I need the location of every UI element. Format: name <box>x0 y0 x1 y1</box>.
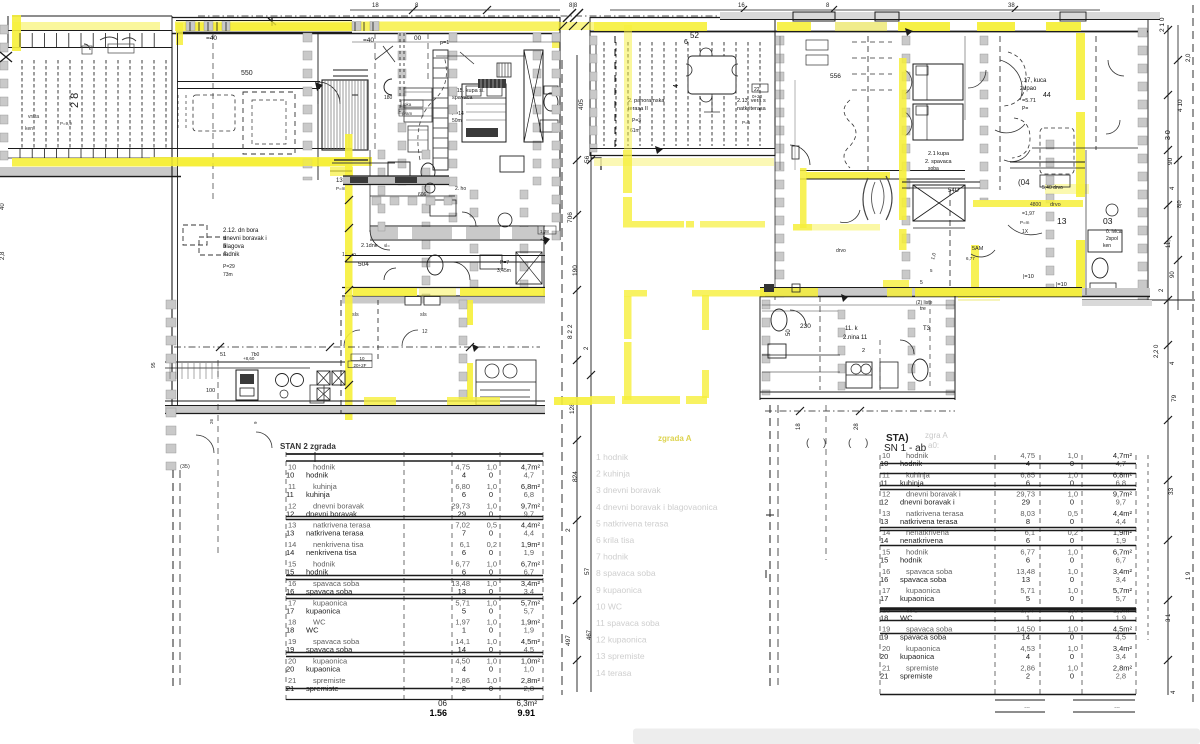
left wing dashed lines down <box>173 360 218 690</box>
svg-text:9 kupaonica: 9 kupaonica <box>596 585 642 595</box>
svg-text:P=m: P=m <box>1020 220 1030 225</box>
dashed wall lower wing <box>341 300 378 413</box>
svg-text:2 1 0: 2 1 0 <box>1159 17 1166 32</box>
sofa dashed living mid <box>183 225 225 255</box>
beam line room1 <box>177 70 320 89</box>
wall highlight yellow v2 <box>467 300 473 400</box>
terrace small labels <box>25 114 72 132</box>
bath cluster extra walls <box>370 150 455 232</box>
svg-text:(: ( <box>848 438 852 449</box>
svg-text:14: 14 <box>880 536 888 545</box>
svg-text:4,4: 4,4 <box>524 529 534 538</box>
svg-text:sl=: sl= <box>384 243 390 248</box>
svg-text:18: 18 <box>796 423 802 430</box>
bath fixtures extra <box>384 156 542 284</box>
masonry right plan left wall <box>775 31 784 300</box>
svg-text:hodnik: hodnik <box>306 471 328 480</box>
masonry right wall rightplan <box>1138 19 1148 300</box>
svg-text:20: 20 <box>286 665 294 674</box>
svg-text:13: 13 <box>1022 575 1030 584</box>
svg-text:824: 824 <box>572 471 579 482</box>
svg-text:3 dnevni boravak: 3 dnevni boravak <box>596 485 661 495</box>
svg-text:1,0: 1,0 <box>930 252 938 260</box>
svg-text:4800: 4800 <box>1030 202 1041 208</box>
terrace hatch stairs <box>22 60 166 148</box>
svg-text:50: 50 <box>786 329 792 336</box>
svg-text:51: 51 <box>220 352 226 358</box>
left edge arrow mark <box>0 52 12 62</box>
wall highlight yellow top right plan <box>777 22 1081 31</box>
svg-text:0: 0 <box>489 548 493 557</box>
dimension under right wing <box>765 407 955 449</box>
svg-text:...: ... <box>1024 703 1030 710</box>
svg-text:29: 29 <box>1022 498 1030 507</box>
svg-text:17: 17 <box>880 594 888 603</box>
svg-text:0: 0 <box>1070 671 1074 680</box>
svg-text:radnik: radnik <box>223 252 240 258</box>
bath right fixtures <box>540 86 558 132</box>
bath cluster corridor lines <box>345 42 560 262</box>
wall highlight yellow band drvo <box>973 200 1083 208</box>
wall highlight yellow bottom right plan <box>760 288 1082 297</box>
svg-text:90: 90 <box>1167 157 1174 165</box>
bottom wall left apartment <box>342 288 545 306</box>
door swing arrows <box>315 28 913 352</box>
svg-text:44: 44 <box>1043 92 1051 99</box>
right plan extra wall lines <box>902 36 1138 295</box>
svg-text:8|8: 8|8 <box>569 3 578 9</box>
door arcs mid <box>370 230 470 280</box>
svg-text:4: 4 <box>1026 652 1030 661</box>
svg-text:606: 606 <box>418 192 427 198</box>
top wall pillars <box>793 12 1086 21</box>
table right room schedule <box>880 431 1148 712</box>
wall highlight yellow v kitchen <box>971 245 979 295</box>
svg-text:1 9: 1 9 <box>1186 571 1192 580</box>
lower wing extra lines right <box>762 300 955 390</box>
wardrobe dashes entry <box>830 42 892 168</box>
svg-text:2: 2 <box>1026 671 1030 680</box>
svg-text:1,28: 1,28 <box>540 229 549 234</box>
right plan lower-left fixtures <box>764 284 806 358</box>
svg-text:blagova: blagova <box>223 244 245 250</box>
svg-text:=5.71: =5.71 <box>1022 98 1036 104</box>
svg-text:2. spavaca: 2. spavaca <box>925 159 953 165</box>
bath fixtures mid <box>427 200 512 275</box>
svg-text:spremiste: spremiste <box>900 671 933 680</box>
svg-text:(04: (04 <box>1018 178 1030 187</box>
closet X box <box>913 185 965 221</box>
svg-text:1,9: 1,9 <box>524 548 534 557</box>
bed dark pillows <box>466 63 511 137</box>
kitchen lower extra <box>170 363 324 403</box>
svg-text:5AM: 5AM <box>972 246 984 252</box>
svg-text:dnevni boravak i: dnevni boravak i <box>900 498 955 507</box>
svg-text:0: 0 <box>489 471 493 480</box>
svg-text:0: 0 <box>489 529 493 538</box>
svg-text:pram: pram <box>402 111 413 116</box>
svg-text:soba: soba <box>928 166 939 172</box>
svg-text:7b0: 7b0 <box>251 352 260 358</box>
bath right fixtures2 <box>1088 204 1122 293</box>
svg-text:11: 11 <box>286 490 294 499</box>
svg-text:6: 6 <box>684 39 688 46</box>
svg-text:ken: ken <box>25 126 33 132</box>
svg-text:40: 40 <box>0 203 6 210</box>
svg-text:3,45m: 3,45m <box>497 268 511 274</box>
svg-text:T3: T3 <box>923 326 931 332</box>
label 2.8 rotated <box>69 93 81 108</box>
yellow dash vert below terrace2 <box>615 25 632 221</box>
corridor below labels <box>352 312 428 335</box>
masonry wall x975 <box>980 36 988 200</box>
svg-text:22: 22 <box>754 87 760 93</box>
entry corridor clutter <box>780 36 828 170</box>
svg-text:5: 5 <box>920 280 923 286</box>
yellow marks above bottom wall <box>883 274 1067 306</box>
tall mirror X box <box>524 50 543 142</box>
svg-text:13: 13 <box>880 517 888 526</box>
window ticks top wall <box>176 22 560 48</box>
terrace bottom gray band <box>0 167 181 177</box>
svg-text:03: 03 <box>1103 216 1113 226</box>
kitchen appliances <box>151 354 372 424</box>
door arcs lower wing <box>196 432 272 453</box>
kitchen arcs right <box>995 60 1030 162</box>
wall highlight yellow bottom apt <box>353 288 545 296</box>
right wing dashed lines down <box>770 405 826 690</box>
svg-text:=40: =40 <box>363 37 374 44</box>
small L marks <box>352 95 774 578</box>
svg-text:natkrivena terasa: natkrivena terasa <box>900 517 958 526</box>
svg-text:P=: P= <box>1022 106 1028 112</box>
label =40 pair <box>206 35 449 46</box>
hall shapes mid <box>404 88 432 152</box>
svg-text:73m: 73m <box>223 272 233 278</box>
dark counter band left apt <box>343 176 449 198</box>
ghost table faded center <box>596 434 718 678</box>
svg-text:3 1: 3 1 <box>1166 613 1172 622</box>
bedroom bed 1 <box>318 33 368 180</box>
svg-text:706: 706 <box>567 212 574 223</box>
yellow ghost outline verticals <box>624 295 709 400</box>
terrace2 labels <box>628 31 768 134</box>
svg-text:(35): (35) <box>180 464 190 470</box>
terrace2 table set <box>686 48 738 112</box>
svg-text:P=m: P=m <box>336 186 346 191</box>
sofa curves kitchen right <box>840 210 1042 257</box>
svg-text:natkriterasa: natkriterasa <box>737 106 767 112</box>
dimension chain under left plan <box>174 343 540 358</box>
svg-text:zgra A: zgra A <box>925 431 948 440</box>
door arcs corridor <box>344 330 418 346</box>
dimension left edge <box>0 203 6 260</box>
door arc room1 <box>318 82 340 104</box>
svg-text:2.nina 11: 2.nina 11 <box>843 335 868 341</box>
svg-text:nenkrivena tisa: nenkrivena tisa <box>306 548 357 557</box>
svg-text:2. ho: 2. ho <box>455 186 466 192</box>
svg-text:4: 4 <box>1171 690 1177 694</box>
svg-text:6: 6 <box>1026 556 1030 565</box>
wall highlight yellow corridor <box>806 172 1089 194</box>
svg-text:nenatkrivena: nenatkrivena <box>900 536 944 545</box>
svg-text:0: 0 <box>1070 575 1074 584</box>
svg-text:5: 5 <box>930 268 933 273</box>
svg-text:p=1: p=1 <box>440 40 449 46</box>
corridor lines right plan <box>800 171 965 255</box>
svg-text:kupaonica: kupaonica <box>306 665 341 674</box>
svg-text:7 hodnik: 7 hodnik <box>596 552 629 562</box>
svg-text:|=10: |=10 <box>1023 274 1034 280</box>
svg-text:P=6: P=6 <box>742 120 751 125</box>
svg-text:556: 556 <box>830 73 841 80</box>
labels 13 03 <box>1020 185 1122 249</box>
svg-text:1 hodnik: 1 hodnik <box>596 452 629 462</box>
sofa dashed living top <box>243 92 295 154</box>
svg-text:12: 12 <box>422 329 428 335</box>
svg-text:8 2 2: 8 2 2 <box>567 324 574 339</box>
left upper wardrobe lines <box>404 92 432 140</box>
staircase ladder <box>418 50 448 170</box>
svg-text:spavaca soba: spavaca soba <box>900 575 947 584</box>
svg-text:2 8: 2 8 <box>69 93 81 108</box>
bedroom bed 2 <box>462 84 506 142</box>
svg-text:12: 12 <box>880 498 888 507</box>
svg-text:): ) <box>865 438 868 449</box>
svg-text:10: 10 <box>286 471 294 480</box>
svg-text:56: 56 <box>584 155 591 163</box>
svg-text:vrata: vrata <box>28 114 39 120</box>
label 550 chair <box>375 46 474 64</box>
svg-text:8: 8 <box>826 3 830 9</box>
svg-text:100: 100 <box>206 388 215 394</box>
svg-text:8|0: 8|0 <box>1177 200 1183 208</box>
svg-text:0: 0 <box>1070 652 1074 661</box>
svg-text:5,7: 5,7 <box>1116 594 1126 603</box>
terrace upper ticks <box>20 33 154 47</box>
svg-text:5,7: 5,7 <box>524 606 534 615</box>
svg-text:2,2 0: 2,2 0 <box>1154 344 1160 358</box>
terrace outer walls left <box>8 16 352 48</box>
svg-text:57: 57 <box>584 567 591 575</box>
svg-text:0: 0 <box>1070 536 1074 545</box>
svg-text:2,8: 2,8 <box>0 251 6 260</box>
radiator C and labels <box>384 79 423 116</box>
top wall apartment left <box>172 18 560 34</box>
dimension chain middle vertical <box>562 55 601 695</box>
svg-text:8: 8 <box>1026 517 1030 526</box>
right kitchen dashed furniture <box>1004 52 1085 187</box>
svg-text:06: 06 <box>438 699 447 708</box>
lower wing fixtures <box>846 340 928 388</box>
yellow ghost outline top <box>624 290 765 297</box>
kitchen labels right <box>1020 78 1051 112</box>
svg-text:4: 4 <box>1170 186 1176 190</box>
svg-text:6,7: 6,7 <box>1116 556 1126 565</box>
svg-text:4: 4 <box>1170 361 1176 365</box>
lower wing labels <box>786 306 931 354</box>
wall highlight yellow v1 <box>345 134 353 420</box>
kitchen lower counters <box>165 362 545 414</box>
svg-text:STAN 2 zgrada: STAN 2 zgrada <box>280 442 336 451</box>
bedroom2 beds <box>905 64 963 140</box>
svg-text:20: 20 <box>880 652 888 661</box>
svg-text:4: 4 <box>462 471 466 480</box>
svg-text:3,4: 3,4 <box>1116 652 1126 661</box>
svg-text:28: 28 <box>854 423 860 430</box>
svg-text:4 10: 4 10 <box>1177 99 1184 112</box>
svg-text:79: 79 <box>1171 394 1178 402</box>
svg-text:18: 18 <box>372 3 379 9</box>
svg-text:52: 52 <box>690 31 699 40</box>
svg-text:9.91: 9.91 <box>517 708 535 718</box>
kitchen strip hatch <box>333 70 368 76</box>
svg-text:2.1 kupa: 2.1 kupa <box>928 151 950 157</box>
svg-text:11. k: 11. k <box>845 326 859 332</box>
svg-text:15: 15 <box>880 556 888 565</box>
masonry wall x533 <box>533 33 541 185</box>
double dashed verticals upper <box>375 33 428 150</box>
svg-text:5: 5 <box>462 606 466 615</box>
svg-text:13: 13 <box>1057 216 1067 226</box>
svg-text:0+20: 0+20 <box>752 94 763 99</box>
masonry wall x300 <box>303 33 312 180</box>
masonry wall x398 <box>398 33 406 185</box>
terrace2 outer walls <box>590 17 775 156</box>
svg-text:4,7: 4,7 <box>524 471 534 480</box>
label 13_48 <box>336 178 378 268</box>
svg-text:8: 8 <box>415 3 419 9</box>
void parentheses marks <box>863 176 892 220</box>
svg-text:14 terasa: 14 terasa <box>596 668 632 678</box>
svg-text:P=29: P=29 <box>223 264 235 270</box>
svg-text:0: 0 <box>489 626 493 635</box>
small rotated labels bedroom2 <box>930 246 984 273</box>
terrace2 bottom <box>590 149 775 167</box>
yellow ghost outline bottom <box>364 396 707 405</box>
svg-text:=40: =40 <box>206 35 217 42</box>
svg-text:14: 14 <box>286 548 294 557</box>
wall highlight yellow corridor L <box>793 168 880 231</box>
svg-text:1,9: 1,9 <box>524 626 534 635</box>
wall highlight yellow band mid <box>150 157 395 176</box>
svg-text:1,0: 1,0 <box>524 665 534 674</box>
svg-text:0: 0 <box>1070 517 1074 526</box>
svg-text:kuhinja: kuhinja <box>306 490 331 499</box>
svg-text:a0:: a0: <box>928 441 939 450</box>
svg-text:WC: WC <box>306 626 319 635</box>
svg-text:0: 0 <box>489 606 493 615</box>
svg-text:180: 180 <box>384 95 393 101</box>
wall vertical main left <box>172 33 178 410</box>
svg-text:6,77: 6,77 <box>966 256 975 261</box>
masonry wall x1040 <box>1018 140 1054 290</box>
svg-text:drvo: drvo <box>836 248 846 254</box>
svg-text:405: 405 <box>578 99 585 110</box>
interior dashed partitions right plan <box>868 36 1096 290</box>
svg-text:16: 16 <box>880 575 888 584</box>
svg-text:P=9,9: P=9,9 <box>60 121 72 126</box>
svg-text:6: 6 <box>462 490 466 499</box>
svg-text:P=7: P=7 <box>500 260 509 266</box>
svg-text:1,9: 1,9 <box>1116 536 1126 545</box>
masonry wall terrace2 left <box>590 36 597 152</box>
svg-text:(: ( <box>806 438 810 449</box>
terrace dashed table <box>178 95 235 131</box>
terrace furniture planters <box>82 18 276 54</box>
svg-text:kupaonica: kupaonica <box>900 652 935 661</box>
svg-text:2: 2 <box>565 528 572 532</box>
svg-text:=1,97: =1,97 <box>1022 211 1035 217</box>
dimension chain right edge <box>1154 5 1193 705</box>
svg-text:17: 17 <box>286 606 294 615</box>
svg-text:11 spavaca soba: 11 spavaca soba <box>596 618 660 628</box>
kitchen right cabinets <box>476 360 536 405</box>
svg-text:4: 4 <box>673 84 680 88</box>
svg-text:1.56: 1.56 <box>429 708 447 718</box>
svg-text:2: 2 <box>862 348 865 354</box>
room divider dashed A <box>212 33 214 200</box>
top wall right plan gray <box>720 12 1160 32</box>
svg-text:7: 7 <box>462 529 466 538</box>
svg-text:...: ... <box>1114 703 1120 710</box>
svg-text:2.12. dn bora: 2.12. dn bora <box>223 228 259 234</box>
svg-text:33: 33 <box>1168 487 1175 495</box>
svg-text:6: 6 <box>462 548 466 557</box>
svg-text:2: 2 <box>1159 288 1165 292</box>
svg-text:26: 26 <box>209 418 214 424</box>
terrace2 hatch <box>604 42 760 146</box>
svg-text:dnevni boravak i: dnevni boravak i <box>223 236 267 242</box>
svg-text:21: 21 <box>880 671 888 680</box>
svg-text:drvo: drvo <box>1050 202 1061 208</box>
svg-text:0: 0 <box>1070 594 1074 603</box>
svg-text:ken: ken <box>1103 243 1111 249</box>
svg-text:2,8: 2,8 <box>1116 671 1126 680</box>
svg-text:10 WC: 10 WC <box>596 601 622 611</box>
living label 2.12 <box>223 228 267 278</box>
svg-text:8 spavaca soba: 8 spavaca soba <box>596 568 656 578</box>
svg-text:90: 90 <box>1170 271 1176 278</box>
labels mid rooms <box>452 88 485 124</box>
lower wing partitions <box>820 296 915 390</box>
svg-text:20+2F: 20+2F <box>354 363 367 368</box>
svg-text:2. panoramska: 2. panoramska <box>628 98 665 104</box>
svg-text:5 natkrivena terasa: 5 natkrivena terasa <box>596 518 669 528</box>
right plan clutter arcs <box>968 60 1124 134</box>
table left room schedule <box>280 442 543 718</box>
svg-text:natkrivena terasa: natkrivena terasa <box>306 529 364 538</box>
svg-text:1: 1 <box>462 626 466 635</box>
svg-text:2spol: 2spol <box>1106 236 1118 242</box>
bottom wall right plan <box>760 288 1195 307</box>
svg-text:13 spremiste: 13 spremiste <box>596 651 645 661</box>
svg-text:5,40 drvo: 5,40 drvo <box>1042 185 1063 191</box>
bath cluster mid walls <box>370 150 545 300</box>
svg-text:6: 6 <box>1026 536 1030 545</box>
lower wing walls right <box>760 296 955 400</box>
svg-text:5: 5 <box>1026 594 1030 603</box>
svg-text:kupaonica: kupaonica <box>306 606 341 615</box>
yellow dash horiz y221 <box>623 221 765 228</box>
svg-text:4 dnevni boravak i blagovaoni: 4 dnevni boravak i blagovaonica <box>596 502 718 512</box>
svg-text:sls: sls <box>352 312 359 318</box>
labels small bath <box>384 186 556 274</box>
wall highlight yellow terrace2 top <box>558 22 707 31</box>
svg-text:13: 13 <box>286 529 294 538</box>
svg-text:190: 190 <box>572 265 579 276</box>
svg-text:zgrada A: zgrada A <box>658 434 692 443</box>
